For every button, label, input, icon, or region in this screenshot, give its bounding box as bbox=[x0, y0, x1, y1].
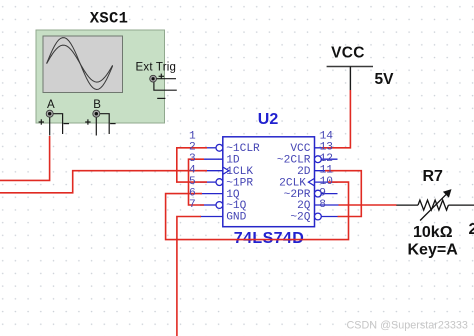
svg-text:5: 5 bbox=[189, 176, 196, 188]
svg-text:10kΩ: 10kΩ bbox=[413, 224, 453, 241]
svg-text:2CLK: 2CLK bbox=[279, 177, 306, 189]
svg-text:VCC: VCC bbox=[331, 45, 365, 62]
svg-text:Key=A: Key=A bbox=[408, 242, 459, 259]
svg-text:U2: U2 bbox=[258, 111, 279, 128]
svg-text:12: 12 bbox=[320, 153, 333, 165]
svg-text:B: B bbox=[93, 99, 101, 111]
svg-text:~2PR: ~2PR bbox=[284, 189, 311, 201]
svg-text:1Q: 1Q bbox=[226, 189, 240, 201]
svg-text:~1Q: ~1Q bbox=[226, 200, 246, 212]
svg-text:11: 11 bbox=[320, 165, 334, 177]
svg-text:9: 9 bbox=[319, 188, 326, 200]
svg-text:3: 3 bbox=[189, 153, 196, 165]
svg-text:1CLK: 1CLK bbox=[226, 166, 253, 178]
svg-text:~1PR: ~1PR bbox=[226, 177, 253, 189]
svg-text:2: 2 bbox=[189, 142, 196, 154]
svg-text:1: 1 bbox=[189, 130, 196, 142]
svg-text:13: 13 bbox=[320, 142, 333, 154]
svg-text:6: 6 bbox=[189, 188, 196, 200]
svg-text:Ext Trig: Ext Trig bbox=[136, 62, 177, 74]
svg-text:XSC1: XSC1 bbox=[90, 10, 128, 28]
svg-text:A: A bbox=[47, 99, 55, 111]
svg-text:CSDN @Superstar23333: CSDN @Superstar23333 bbox=[347, 320, 468, 332]
svg-text:74LS74D: 74LS74D bbox=[234, 230, 304, 247]
svg-text:~2Q: ~2Q bbox=[290, 212, 310, 224]
svg-text:5V: 5V bbox=[375, 71, 395, 88]
svg-text:20%: 20% bbox=[469, 221, 474, 238]
svg-text:2Q: 2Q bbox=[297, 200, 311, 212]
svg-text:R7: R7 bbox=[423, 168, 444, 185]
svg-text:7: 7 bbox=[189, 199, 196, 211]
svg-text:2D: 2D bbox=[297, 166, 311, 178]
svg-text:8: 8 bbox=[319, 199, 326, 211]
svg-text:10: 10 bbox=[320, 176, 334, 188]
svg-text:14: 14 bbox=[320, 130, 334, 142]
svg-text:~2CLR: ~2CLR bbox=[277, 154, 311, 166]
svg-text:~1CLR: ~1CLR bbox=[226, 143, 260, 155]
svg-text:1D: 1D bbox=[226, 154, 240, 166]
svg-text:GND: GND bbox=[226, 212, 246, 224]
svg-text:4: 4 bbox=[189, 165, 196, 177]
svg-text:VCC: VCC bbox=[290, 143, 310, 155]
